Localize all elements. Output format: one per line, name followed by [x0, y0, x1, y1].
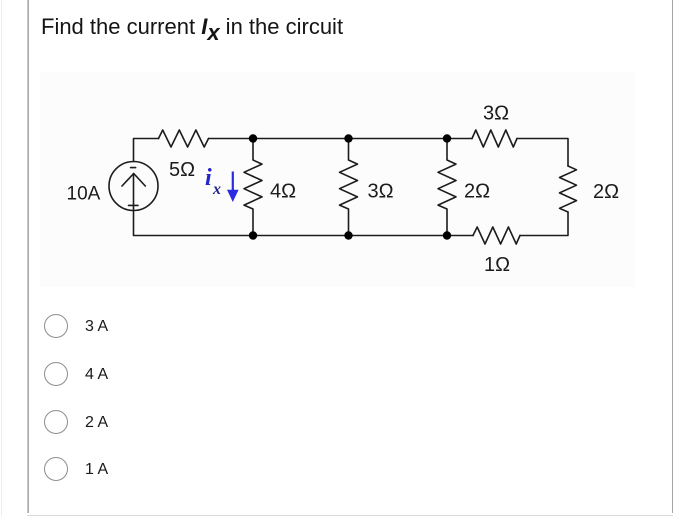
node A: [249, 134, 257, 142]
left page edge line: [1, 0, 2, 516]
wire 5ohm to node A: [209, 138, 254, 140]
svg-text:3Ω: 3Ω: [483, 103, 509, 125]
node F: [443, 231, 451, 239]
wire node C to R5: [447, 138, 472, 140]
current source I1 circle: [109, 162, 158, 211]
plus mark: [129, 204, 139, 206]
wire right bottom corner: [520, 212, 568, 236]
resistor R6 2ohm right: [560, 166, 577, 212]
answer option 4A: [44, 362, 344, 386]
answer option 2A: [44, 410, 344, 434]
svg-text:3Ω: 3Ω: [368, 181, 394, 203]
answer option 1A: [44, 457, 344, 481]
current source arrow: [133, 174, 135, 210]
resistor R1 5ohm: [159, 130, 209, 147]
resistor R3 3ohm branch: [340, 139, 358, 236]
wire node A to node B: [253, 138, 349, 140]
answer option 3A: [44, 314, 344, 338]
circuit schematic image: [40, 72, 635, 287]
card right border: [672, 0, 674, 513]
svg-text:2Ω: 2Ω: [464, 181, 490, 203]
node E: [344, 231, 352, 239]
svg-text:i: i: [205, 165, 212, 191]
minus mark: [131, 167, 136, 169]
wire bottom to source: [134, 211, 254, 236]
node B: [344, 134, 352, 142]
image background: [40, 72, 635, 287]
radio 4A: [44, 362, 68, 386]
resistor R7 1ohm bottom-right: [473, 227, 520, 244]
wire top-left horizontal: [134, 139, 159, 162]
current arrow ix: [228, 172, 238, 201]
radio 3A: [44, 314, 68, 338]
svg-text:5Ω: 5Ω: [169, 159, 195, 181]
resistor R5 3ohm top-right: [472, 130, 517, 147]
resistor R4 2ohm branch: [438, 139, 456, 236]
svg-text:4Ω: 4Ω: [270, 181, 296, 203]
wire node B to node C: [349, 138, 448, 140]
resistor R2 4ohm branch: [244, 139, 262, 236]
radio 1A: [44, 457, 68, 481]
svg-text:10A: 10A: [67, 184, 101, 205]
node D: [249, 231, 257, 239]
card bottom border: [27, 515, 673, 516]
svg-text:2Ω: 2Ω: [593, 181, 619, 203]
svg-text:1Ω: 1Ω: [484, 254, 510, 276]
node C: [443, 134, 451, 142]
wire node F to R7: [447, 235, 473, 237]
svg-text:x: x: [212, 181, 221, 198]
wire bottom node E to node D: [253, 235, 349, 237]
wire bottom node F to node E: [349, 235, 448, 237]
wire R5 to right corner: [517, 139, 568, 167]
question title: [41, 14, 343, 40]
radio 2A: [44, 410, 68, 434]
label ix blue: [205, 165, 221, 198]
card left border: [27, 0, 29, 513]
